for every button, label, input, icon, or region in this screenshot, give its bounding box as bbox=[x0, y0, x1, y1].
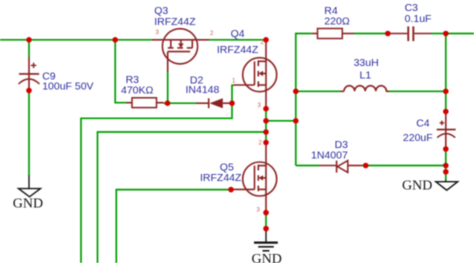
svg-text:IRFZ44Z: IRFZ44Z bbox=[200, 172, 242, 184]
svg-text:3: 3 bbox=[258, 103, 262, 109]
svg-text:2: 2 bbox=[210, 31, 214, 37]
svg-text:IRFZ44Z: IRFZ44Z bbox=[154, 16, 196, 28]
svg-text:IRFZ44Z: IRFZ44Z bbox=[217, 44, 259, 56]
svg-text:3: 3 bbox=[257, 208, 261, 214]
svg-text:Q4: Q4 bbox=[231, 28, 245, 40]
svg-text:C4: C4 bbox=[416, 118, 430, 130]
svg-text:IN4148: IN4148 bbox=[186, 84, 220, 96]
svg-text:220uF: 220uF bbox=[403, 132, 433, 144]
svg-text:3: 3 bbox=[156, 30, 160, 36]
svg-text:2: 2 bbox=[259, 141, 263, 147]
svg-text:GND: GND bbox=[252, 252, 282, 263]
svg-text:GND: GND bbox=[13, 197, 43, 212]
svg-text:L1: L1 bbox=[360, 69, 372, 81]
svg-text:220Ω: 220Ω bbox=[324, 16, 350, 28]
svg-text:33uH: 33uH bbox=[354, 57, 379, 69]
svg-text:1N4007: 1N4007 bbox=[311, 149, 348, 161]
svg-text:GND: GND bbox=[402, 178, 432, 193]
svg-text:470KΩ: 470KΩ bbox=[121, 85, 154, 97]
svg-text:100uF 50V: 100uF 50V bbox=[42, 81, 93, 93]
svg-text:1: 1 bbox=[232, 79, 236, 85]
svg-text:0.1uF: 0.1uF bbox=[405, 13, 432, 25]
